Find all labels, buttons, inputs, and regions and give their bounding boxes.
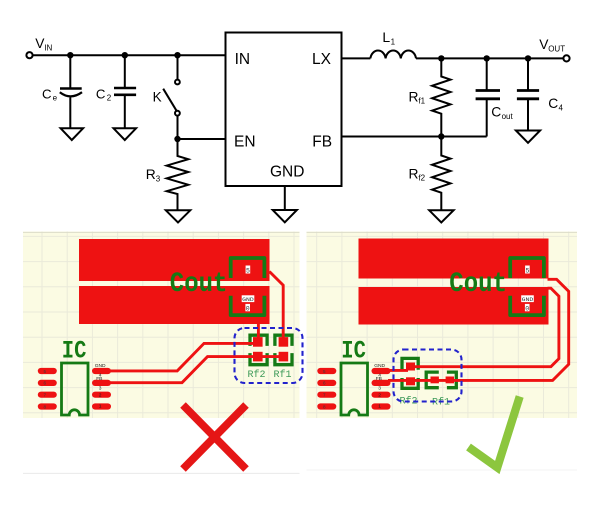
- svg-text:2: 2: [107, 94, 112, 103]
- pin IN label: [235, 51, 251, 68]
- node junction Cout top: [484, 55, 490, 61]
- svg-text:0: 0: [246, 305, 250, 312]
- node junction at Ce: [67, 52, 73, 58]
- svg-text:7: 7: [44, 393, 47, 398]
- pin 2 and 1 numbers: [378, 392, 381, 409]
- svg-text:IN: IN: [44, 44, 52, 53]
- capacitor Ce (polarized): [60, 55, 82, 128]
- pin 5 label chip: [246, 266, 251, 275]
- svg-text:2: 2: [378, 392, 381, 398]
- resistor Rf2 footprint brackets: [250, 335, 267, 346]
- svg-text:EN: EN: [234, 134, 256, 151]
- wire FB line: [342, 136, 487, 138]
- op-amp U1 : regulator IC box: [226, 33, 342, 187]
- copper pour VOUT (top): [79, 239, 270, 281]
- label R3: [146, 167, 161, 183]
- node junction EN: [174, 136, 180, 142]
- svg-text:Rf1: Rf1: [274, 369, 292, 381]
- pad Rf2 bottom: [253, 352, 263, 362]
- svg-text:FB: FB: [312, 134, 332, 151]
- svg-text:2: 2: [99, 392, 102, 398]
- pad Rf2 top: [406, 363, 415, 371]
- ground below IC GND: [273, 210, 297, 222]
- IC pads pins 4-1 (right column): [92, 368, 111, 410]
- resistor Rf1 footprint brackets: [275, 335, 292, 346]
- pad Rf1 top: [279, 337, 289, 347]
- svg-text:3: 3: [378, 386, 381, 392]
- svg-text:GND: GND: [374, 363, 385, 369]
- svg-text:8: 8: [44, 404, 47, 409]
- pad Rf1 right: [446, 377, 454, 384]
- pin name GND / 4: [374, 363, 385, 378]
- svg-text:Cout: Cout: [170, 268, 228, 300]
- svg-text:OUT: OUT: [548, 45, 565, 54]
- svg-text:R: R: [146, 167, 156, 182]
- component IC silkscreen outline: [341, 363, 368, 415]
- resistor Rf1 footprint brackets (horizontal): [426, 372, 439, 388]
- svg-text:f2: f2: [418, 174, 425, 183]
- highlight box around Rf1/Rf2: [394, 350, 462, 402]
- pin 0 label chip: [245, 304, 250, 312]
- svg-text:0: 0: [525, 305, 529, 312]
- correct mark check: [469, 397, 520, 468]
- label C4: [548, 96, 563, 112]
- svg-text:4: 4: [559, 103, 564, 112]
- pin name GND / 4: [95, 363, 106, 378]
- copper pour VOUT (top): [359, 239, 549, 279]
- component IC silkscreen outline: [62, 363, 89, 415]
- svg-text:C: C: [96, 87, 106, 102]
- PCB panel background (bad layout): [23, 232, 300, 419]
- svg-text:5: 5: [44, 369, 47, 374]
- svg-text:6: 6: [323, 381, 326, 386]
- inductor L1: [370, 51, 416, 59]
- trace GND pour to Rf2 top pad: [257, 324, 260, 343]
- node junction at K: [174, 52, 180, 58]
- pin numbers 5 6 7 8: [323, 369, 326, 409]
- svg-text:f1: f1: [418, 97, 425, 106]
- capacitor C2: [114, 55, 136, 128]
- svg-text:GND: GND: [522, 296, 534, 303]
- svg-text:L: L: [382, 29, 390, 45]
- svg-text:1: 1: [378, 404, 381, 410]
- capacitor C4: [517, 58, 539, 130]
- wire LX to L1: [342, 57, 371, 59]
- svg-text:IC: IC: [341, 337, 366, 365]
- node VIN input terminal: [26, 52, 32, 58]
- resistor Rf2 footprint brackets (vertical): [402, 358, 418, 369]
- trace GND from IC pin 4 to Rf2 top pad: [108, 343, 257, 371]
- label C2: [96, 87, 112, 103]
- svg-text:1: 1: [99, 404, 102, 410]
- label VOUT: [539, 37, 565, 54]
- svg-text:6: 6: [44, 381, 47, 386]
- svg-text:C: C: [42, 87, 52, 102]
- svg-text:e: e: [53, 94, 58, 103]
- IC pads pins 5-8 (left column): [317, 368, 336, 410]
- trace FB from IC pin 3 to Rf2/Rf1 bottom pads: [108, 357, 283, 383]
- pin FB label: [312, 134, 332, 151]
- verdict marks: [23, 397, 577, 474]
- pad Rf2 top: [253, 337, 263, 347]
- pin name FB / 3: [376, 376, 382, 391]
- switch K: [163, 55, 180, 139]
- capacitor Cout footprint bracket pin 0 GND: [510, 296, 544, 315]
- svg-text:7: 7: [323, 393, 326, 398]
- svg-text:C: C: [491, 105, 501, 120]
- svg-text:3: 3: [99, 386, 102, 392]
- svg-text:GND: GND: [270, 164, 304, 181]
- wire VIN rail to IC IN pin: [33, 54, 226, 56]
- svg-text:IN: IN: [235, 51, 251, 68]
- svg-text:GND: GND: [95, 363, 106, 369]
- pad Rf2 bottom: [406, 377, 415, 385]
- node junction Rf1 top: [438, 55, 444, 61]
- wire EN to IC: [178, 138, 226, 140]
- svg-text:R: R: [409, 90, 419, 105]
- capacitor Cout footprint bracket pin 5: [231, 258, 265, 278]
- trace VOUT pour to Rf1 top pad: [269, 272, 283, 343]
- wire L1 to VOUT rail: [416, 57, 563, 59]
- pin 2 and 1 numbers: [99, 392, 102, 409]
- grid: [23, 232, 300, 419]
- label VIN: [35, 36, 52, 53]
- copper pour GND (bottom): [359, 287, 549, 325]
- pin 5 label chip: [525, 266, 530, 275]
- label K: [153, 90, 162, 105]
- svg-text:5: 5: [246, 267, 250, 274]
- ground below Rf2: [429, 210, 453, 222]
- svg-text:out: out: [502, 112, 514, 121]
- copper pour GND (bottom): [79, 286, 270, 324]
- pin GND label chip: [242, 295, 255, 303]
- svg-text:R: R: [409, 167, 419, 182]
- svg-text:GND: GND: [242, 296, 254, 303]
- pin name FB / 3: [96, 376, 102, 391]
- label L1: [382, 29, 395, 46]
- svg-text:FB: FB: [96, 376, 102, 382]
- svg-text:1: 1: [391, 37, 396, 46]
- grid: [307, 232, 578, 419]
- trace FB IC pin 3 through Rf2 bottom / Rf1 left pads: [388, 379, 448, 382]
- node junction at C2: [122, 52, 128, 58]
- svg-text:3: 3: [156, 174, 161, 183]
- node VOUT terminal: [563, 55, 569, 61]
- wire GND pin down: [284, 186, 286, 210]
- trace GND Rf2 top pad around to Cout GND pour: [413, 288, 559, 367]
- svg-text:FB: FB: [376, 376, 382, 382]
- pin GND label chip: [521, 295, 534, 303]
- svg-text:5: 5: [323, 369, 326, 374]
- trace GND IC pin 4 to Rf2 top pad: [388, 369, 408, 372]
- node junction FB / Rf2: [438, 133, 444, 139]
- ground below C2: [114, 128, 137, 140]
- svg-text:Rf2: Rf2: [248, 369, 266, 381]
- ground below Ce: [61, 128, 84, 140]
- image seam line right: [307, 469, 578, 471]
- svg-text:8: 8: [323, 404, 326, 409]
- label Cout: [491, 105, 513, 122]
- ground below R3: [166, 210, 191, 222]
- trace VOUT Rf1 right pad around to Cout pin 5 pour: [450, 279, 569, 380]
- svg-text:Cout: Cout: [449, 268, 507, 300]
- pad Rf1 bottom: [279, 352, 289, 362]
- pin 0 label chip: [525, 304, 530, 312]
- highlight box around Rf1/Rf2: [235, 328, 303, 383]
- svg-text:LX: LX: [312, 51, 332, 68]
- resistor Rf1: [432, 58, 450, 136]
- svg-text:5: 5: [526, 267, 530, 274]
- capacitor Cout footprint bracket pin 0 GND: [231, 296, 265, 315]
- resistor Rf2: [432, 137, 450, 211]
- wrong mark X: [183, 405, 246, 469]
- capacitor Cout footprint bracket pin 5: [510, 258, 544, 278]
- node junction C4 top: [525, 55, 531, 61]
- pad Rf1 left: [431, 377, 439, 384]
- pin numbers 5 6 7 8: [44, 369, 47, 409]
- capacitor Cout: [476, 58, 500, 136]
- image seam line left: [23, 472, 300, 474]
- svg-text:IC: IC: [62, 337, 87, 365]
- pin GND label: [270, 164, 304, 181]
- pin EN label: [234, 134, 256, 151]
- PCB panel background (good layout): [307, 232, 578, 419]
- label Rf1: [409, 90, 426, 106]
- svg-text:C: C: [548, 96, 558, 111]
- IC pads pins 4-1 (right column): [372, 368, 391, 410]
- IC pads pins 5-8 (left column): [38, 368, 57, 410]
- label Rf2: [409, 167, 426, 183]
- resistor R3: [167, 139, 189, 210]
- label Ce: [42, 87, 58, 103]
- svg-text:K: K: [153, 90, 162, 105]
- ground below C4: [516, 131, 540, 143]
- pin LX label: [312, 51, 332, 68]
